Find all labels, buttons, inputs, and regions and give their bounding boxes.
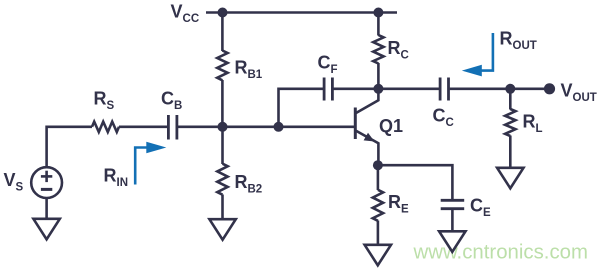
svg-text:CB: CB — [161, 89, 182, 113]
wire — [45, 198, 48, 219]
wire — [206, 11, 397, 14]
resistor RB2 — [217, 164, 227, 195]
resistor RS — [92, 122, 119, 132]
capacitor CE — [441, 200, 465, 208]
svg-text:CE: CE — [470, 196, 491, 220]
wire — [279, 89, 324, 127]
svg-text:www.cntronics.com: www.cntronics.com — [413, 241, 589, 263]
wire — [377, 165, 380, 190]
transistor Q1 — [355, 93, 378, 165]
wire — [378, 165, 453, 199]
wire — [377, 13, 380, 36]
node base rail junction 1 — [218, 122, 228, 132]
svg-text:RC: RC — [388, 38, 409, 62]
resistor RL — [505, 109, 515, 136]
node collector junction — [373, 84, 383, 94]
wire — [47, 127, 92, 168]
node base rail junction 2 — [274, 122, 284, 132]
svg-text:RB1: RB1 — [235, 58, 263, 82]
ground — [497, 168, 523, 189]
wire — [221, 80, 224, 127]
resistor RC — [373, 35, 383, 64]
svg-text:VS: VS — [4, 170, 24, 194]
svg-text:Q1: Q1 — [379, 116, 403, 136]
ground — [33, 219, 59, 240]
resistor RE — [373, 190, 383, 221]
wire — [119, 126, 167, 129]
node collector rail junction — [373, 8, 383, 18]
ground — [439, 231, 465, 252]
wire — [377, 221, 380, 246]
svg-text:RS: RS — [94, 89, 115, 113]
svg-text:RIN: RIN — [104, 165, 129, 189]
wire — [509, 89, 512, 110]
wire — [221, 127, 224, 164]
wire — [451, 210, 454, 232]
wire — [377, 63, 380, 89]
svg-text:CC: CC — [433, 106, 454, 130]
source VS — [31, 167, 62, 198]
wire — [378, 88, 439, 91]
resistor RB1 — [217, 51, 227, 81]
capacitor CB — [168, 115, 177, 140]
wire — [221, 13, 224, 52]
wire — [509, 136, 512, 169]
svg-text:ROUT: ROUT — [500, 29, 537, 53]
wire — [334, 88, 379, 91]
wire — [221, 195, 224, 220]
svg-text:CF: CF — [318, 53, 338, 77]
svg-text:RB2: RB2 — [235, 172, 263, 196]
svg-text:VCC: VCC — [171, 1, 200, 25]
node VCC junction — [218, 8, 228, 18]
arrow ROUT — [462, 33, 493, 76]
arrow RIN — [135, 142, 166, 185]
svg-text:RL: RL — [523, 112, 543, 136]
svg-text:VOUT: VOUT — [561, 81, 597, 105]
node emitter junction — [373, 160, 383, 170]
ground — [209, 219, 235, 240]
terminal VOUT — [544, 83, 555, 94]
wire — [178, 126, 355, 129]
wire — [450, 88, 549, 91]
node output junction — [505, 84, 515, 94]
svg-text:RE: RE — [388, 192, 409, 216]
capacitor CF — [324, 78, 332, 101]
ground — [365, 245, 391, 265]
capacitor CC — [440, 78, 448, 101]
